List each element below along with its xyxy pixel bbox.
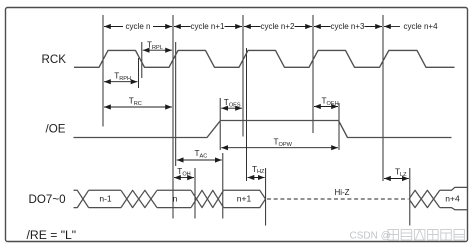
data transition n to n+1 bbox=[191, 190, 224, 207]
cycle boundary extent line x=313 bbox=[312, 15, 314, 133]
svg-text:DO7~0: DO7~0 bbox=[29, 193, 66, 206]
extent line x=220.2 (T_OES/T_OPW left) bbox=[219, 98, 221, 150]
svg-text:n+1: n+1 bbox=[237, 194, 252, 204]
cycle boundary extent line x=383 (T_LZ left) bbox=[382, 15, 384, 181]
svg-text:cycle n+1: cycle n+1 bbox=[190, 22, 225, 31]
data cell n+4 open end bbox=[440, 187, 467, 190]
cycle n+2 arrows bbox=[244, 26, 261, 28]
cycle n+1 arrows bbox=[174, 26, 191, 28]
RCK clock waveform bbox=[74, 50, 455, 67]
data cell n+1 bbox=[224, 190, 266, 199]
extent line x=246.5 (T_HZ left) bbox=[246, 48, 248, 181]
dimension T_OH bbox=[174, 177, 194, 179]
dimension T_OPW bbox=[221, 147, 338, 149]
/OE waveform bbox=[74, 121, 452, 138]
extent line x=339 (T_OEH/T_OPW right) bbox=[338, 103, 340, 150]
data transition to n+4 bbox=[409, 190, 440, 207]
extent line x=141.8 (T_RPL left) bbox=[141, 42, 143, 78]
data bus start break bbox=[74, 190, 89, 207]
data cell n-1 bbox=[89, 189, 121, 191]
svg-text:Hi-Z: Hi-Z bbox=[334, 188, 349, 197]
dimension T_HZ bbox=[248, 177, 265, 179]
svg-text:/OE: /OE bbox=[46, 123, 66, 136]
data cell n bbox=[157, 189, 191, 191]
svg-text:n: n bbox=[173, 194, 178, 204]
svg-text:cycle n+4: cycle n+4 bbox=[404, 22, 439, 31]
data transition n-1 to n bbox=[121, 190, 157, 207]
extent line x=265.6 (T_HZ right) bbox=[265, 168, 267, 226]
cycle n+3 arrows bbox=[314, 26, 331, 28]
dimension T_AC bbox=[177, 159, 222, 161]
svg-text:cycle n+3: cycle n+3 bbox=[330, 22, 365, 31]
svg-text:RCK: RCK bbox=[42, 53, 67, 66]
svg-text:cycle n+2: cycle n+2 bbox=[260, 22, 295, 31]
extent line x=222.8 (T_AC right) bbox=[222, 153, 224, 219]
svg-text:cycle n: cycle n bbox=[126, 22, 151, 31]
extent line x=409.8 (T_LZ right) bbox=[409, 168, 411, 226]
svg-text:n-1: n-1 bbox=[99, 194, 112, 204]
dimension T_RC bbox=[104, 106, 172, 108]
watermark CSDN bbox=[350, 230, 465, 242]
dimension T_OES bbox=[221, 107, 242, 109]
Hi-Z dashed line bbox=[267, 198, 408, 200]
dimension T_LZ bbox=[384, 178, 409, 180]
cycle n arrows bbox=[104, 26, 400, 28]
cycle n+4 arrow bbox=[384, 26, 400, 28]
extent line x=138.5 (T_RPH right) bbox=[138, 58, 140, 88]
dimension T_RPH bbox=[104, 81, 138, 83]
cycle boundary extent line x=173 bbox=[172, 15, 174, 219]
extent line x=175.7 (T_AC left) bbox=[175, 42, 177, 166]
dimension T_OEH bbox=[314, 106, 338, 108]
svg-text:n+4: n+4 bbox=[445, 194, 460, 204]
cycle boundary extent line x=243 bbox=[242, 15, 244, 137]
cycle boundary extent line x=103 bbox=[102, 15, 104, 127]
extent line x=195 (T_OH right) bbox=[194, 168, 196, 219]
svg-text:/RE = "L": /RE = "L" bbox=[27, 228, 77, 242]
svg-text:CSDN @: CSDN @ bbox=[350, 230, 391, 241]
dimension T_RPL bbox=[143, 49, 172, 51]
